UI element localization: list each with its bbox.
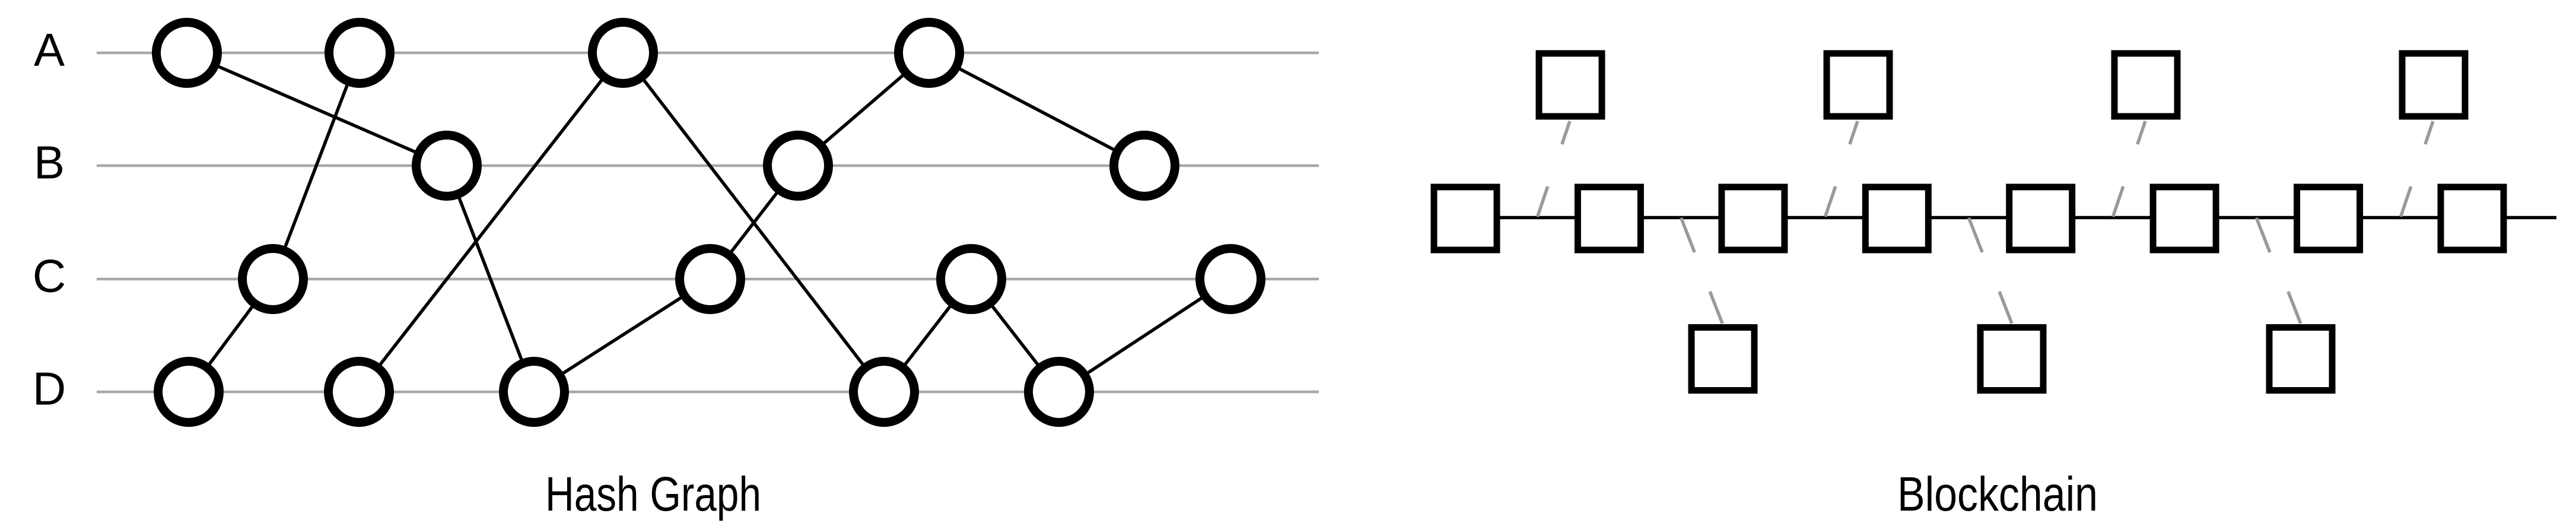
svg-text:Hash Graph: Hash Graph: [545, 467, 761, 521]
svg-text:B: B: [34, 137, 65, 189]
svg-text:Blockchain: Blockchain: [1897, 467, 2098, 521]
svg-text:A: A: [34, 24, 65, 76]
svg-text:D: D: [33, 363, 66, 415]
svg-text:C: C: [33, 250, 66, 302]
